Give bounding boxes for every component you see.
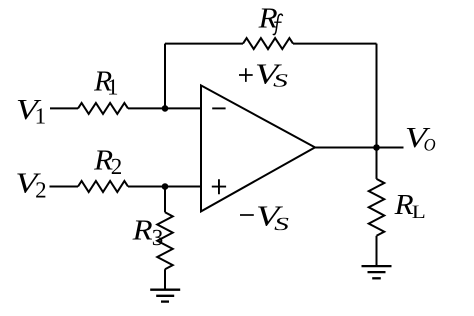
label Vo xyxy=(405,122,436,154)
wire feedback top left xyxy=(165,43,243,45)
label V2 xyxy=(15,168,46,203)
op-amp U1 xyxy=(201,85,315,211)
output node junction dot xyxy=(373,144,380,151)
resistor R3 xyxy=(157,212,173,269)
label -VS negative supply xyxy=(240,201,289,235)
wire output node down to RL xyxy=(376,148,378,179)
node A junction dot xyxy=(162,105,169,112)
op-amp inverting input minus sign xyxy=(212,107,225,109)
ground under R3 xyxy=(150,290,180,302)
svg-text:S: S xyxy=(273,72,288,92)
label R3 xyxy=(131,214,163,250)
label Rf xyxy=(258,3,283,35)
svg-text:S: S xyxy=(274,215,289,235)
svg-text:R: R xyxy=(258,3,278,35)
wire op-amp output xyxy=(315,147,404,149)
resistor R1 xyxy=(78,103,128,114)
svg-text:L: L xyxy=(412,202,426,223)
wire V2 lead to R2 xyxy=(50,186,79,188)
resistor Rf xyxy=(243,38,293,49)
wire R2 to op-amp non-inverting input xyxy=(128,186,201,188)
wire feedback top right xyxy=(293,43,377,45)
svg-text:O: O xyxy=(424,134,436,154)
label V1 xyxy=(16,94,46,129)
svg-text:3: 3 xyxy=(152,225,164,250)
wire node A to feedback corner xyxy=(164,44,166,109)
label R2 xyxy=(93,145,122,180)
label +VS positive supply xyxy=(239,59,288,92)
svg-text:2: 2 xyxy=(111,154,123,179)
ground under RL xyxy=(362,266,392,278)
resistor R2 xyxy=(78,181,128,192)
wire RL to ground xyxy=(376,236,378,266)
op-amp non-inverting input plus sign xyxy=(212,179,226,194)
node B junction dot xyxy=(162,183,169,190)
label RL xyxy=(394,189,426,223)
svg-text:1: 1 xyxy=(35,104,47,129)
svg-text:R: R xyxy=(131,214,152,246)
wire feedback right vertical xyxy=(376,44,378,148)
wire R1 to op-amp inverting input xyxy=(128,107,201,109)
wire node B down to R3 xyxy=(164,187,166,213)
wire R3 to ground xyxy=(164,269,166,290)
svg-text:2: 2 xyxy=(35,178,47,203)
label R1 xyxy=(93,66,118,100)
svg-text:1: 1 xyxy=(107,74,119,99)
resistor RL xyxy=(369,179,385,236)
wire V1 lead to R1 xyxy=(50,107,78,109)
